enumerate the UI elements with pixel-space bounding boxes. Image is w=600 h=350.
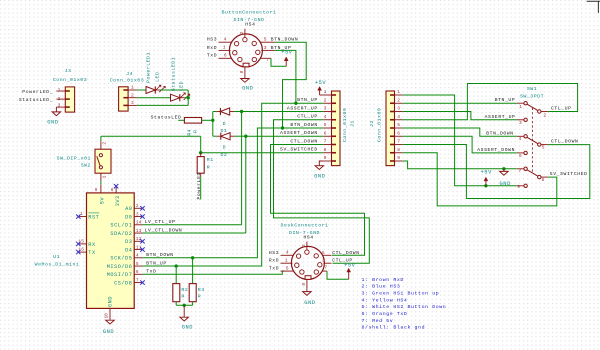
svg-text:Conn_01x03: Conn_01x03: [110, 77, 144, 83]
pin 8 (DeskConnector1): [301, 280, 307, 289]
pin 1 number (SW2): [102, 175, 108, 178]
ground symbol (R2/R3): [180, 317, 189, 321]
wire BTN_DOWN bus: [143, 128, 324, 258]
pin 13 SDA/D2 (U1): [110, 228, 142, 237]
svg-text:A0: A0: [125, 206, 132, 212]
pin 8 (ButtonConnector1): [239, 67, 245, 74]
svg-text:3: 3: [322, 258, 325, 264]
pin numbers J2: [397, 89, 400, 161]
junction BTN_DOWN / ButtonConnector1: [281, 126, 284, 129]
net label ASSERT_DOWN (J1): [280, 130, 318, 136]
net label CTL_DOWN (J1): [290, 138, 317, 144]
net label RxD (top): [207, 45, 217, 51]
svg-text:R: R: [181, 294, 184, 300]
wire pin7 to +5V (bottom): [327, 271, 349, 279]
net label ASSERT_UP (J1): [287, 105, 318, 111]
svg-text:BTN_UP: BTN_UP: [146, 260, 167, 266]
wire ASSERT_DOWN row: [246, 135, 323, 137]
svg-text:BTN_DOWN: BTN_DOWN: [486, 130, 513, 136]
svg-text:14: 14: [136, 220, 142, 226]
resistor R2: [173, 284, 180, 306]
svg-text:SCL/D1: SCL/D1: [110, 223, 132, 229]
junction BTN_UP / ButtonConnector1: [294, 102, 297, 105]
svg-text:4: 4: [224, 37, 227, 43]
svg-text:HS3: HS3: [269, 250, 279, 256]
label SW1: [527, 86, 537, 92]
svg-text:GND: GND: [108, 296, 114, 307]
pin 1 stub (ButtonConnector1): [219, 45, 231, 51]
svg-text:3: 3: [136, 211, 139, 217]
net label CTL_UP (SW1): [551, 106, 572, 112]
svg-text:RX: RX: [88, 242, 96, 248]
svg-text:6: 6: [324, 130, 327, 136]
svg-text:GND: GND: [242, 86, 253, 92]
svg-text:2: 2: [397, 97, 400, 103]
power +5V (J1 pin1): [318, 87, 324, 95]
svg-text:BTN_UP: BTN_UP: [297, 97, 318, 103]
svg-text:5V: 5V: [99, 197, 105, 205]
svg-text:SW_DIP_x01: SW_DIP_x01: [57, 155, 91, 161]
svg-text:+5V: +5V: [281, 50, 293, 56]
svg-text:4: 4: [397, 114, 400, 120]
svg-text:2: 2: [136, 203, 139, 209]
net label HS3: [207, 37, 217, 43]
svg-text:Conn_01x03: Conn_01x03: [53, 77, 87, 83]
net label HS4 (top): [245, 22, 255, 28]
svg-text:8: 8: [397, 147, 400, 153]
pin 14 SCL/D1 (U1): [110, 220, 142, 229]
svg-text:R2: R2: [181, 287, 188, 293]
label StatusLED1: [170, 57, 176, 91]
wire CTL_DOWN to SW1: [403, 145, 590, 199]
svg-text:CS/D8: CS/D8: [114, 280, 132, 286]
svg-text:StatusLED_: StatusLED_: [19, 97, 53, 103]
resistor R3: [189, 284, 196, 306]
svg-text:9: 9: [324, 155, 327, 161]
power +5V (SW1): [484, 177, 488, 186]
svg-text:TxD: TxD: [207, 53, 217, 59]
svg-text:Conn_01x09: Conn_01x09: [377, 108, 383, 142]
switch SW2 SW_DIP_x01: [95, 141, 111, 181]
svg-text:6: 6: [286, 266, 289, 272]
pin 3 stub (ButtonConnector1): [261, 45, 274, 51]
pin 1 stub (DeskConnector1): [281, 258, 293, 264]
pin 11 D4 (U1): [125, 244, 142, 253]
value DIN-7-GND (DeskConnector1): [289, 230, 320, 236]
ground symbol (U1): [106, 320, 115, 324]
value LED (StatusLED1): [179, 81, 185, 91]
svg-text:StatusLED1: StatusLED1: [170, 57, 176, 91]
wire CTL_DOWN bus: [271, 145, 365, 256]
label +5V (J1): [315, 80, 327, 86]
net label CTL_DOWN (SW1): [551, 139, 578, 145]
label SW_DIP_x01: [57, 155, 91, 161]
label Conn_01x09 (J1): [342, 108, 348, 142]
wire ASSERT_DOWN to LV_CTL_DOWN: [143, 136, 246, 233]
net label BTN_UP (J1): [297, 97, 318, 103]
value D (D1): [223, 121, 226, 127]
svg-text:SW_3PDT: SW_3PDT: [520, 94, 544, 100]
no-connect X D4: [140, 247, 144, 251]
net label TxD (U1): [146, 269, 156, 275]
svg-text:U1: U1: [53, 254, 60, 260]
svg-text:ASSERT_DOWN: ASSERT_DOWN: [280, 130, 318, 136]
net label HS3 (bottom): [269, 250, 279, 256]
sheet frame corner: [587, 1, 600, 13]
pin 3 D0 (U1): [125, 211, 142, 220]
svg-text:+5V: +5V: [315, 80, 327, 86]
junction GND (SW1): [502, 167, 505, 170]
pin 9 5V (U1): [95, 185, 106, 204]
svg-text:8: 8: [301, 283, 307, 286]
wire R4 to diodes: [202, 119, 213, 121]
junction LED cathodes: [187, 96, 190, 99]
value R (R3): [198, 294, 201, 300]
label J1: [350, 120, 356, 127]
diode D2: [213, 133, 246, 140]
pin 6 stub (DeskConnector1): [281, 266, 294, 272]
power +5V (ButtonConnector1): [284, 57, 288, 66]
wire ASSERT_DOWN to SW1: [403, 136, 517, 153]
pin 2 (DeskConnector1): [301, 242, 307, 250]
pin 16 TX (U1): [78, 247, 96, 257]
pin 5 stub (ButtonConnector1): [260, 37, 274, 43]
connector DeskConnector1 DIN-7-GND body: [291, 246, 324, 279]
svg-text:1: 1: [131, 85, 134, 91]
svg-text:10: 10: [103, 313, 109, 319]
svg-text:5: 5: [264, 37, 267, 43]
svg-text:3: 3: [397, 106, 400, 112]
svg-text:PowerLED_: PowerLED_: [22, 89, 53, 95]
wire ASSERT_UP to SW1: [403, 112, 517, 120]
svg-text:WeMos_D1_mini: WeMos_D1_mini: [35, 262, 80, 268]
label R1: [207, 157, 214, 163]
svg-text:1: 1: [324, 89, 327, 95]
svg-text:5: 5: [324, 122, 327, 128]
value R (R1): [207, 165, 210, 171]
connector J3 Conn_01x03: [56, 87, 74, 112]
net label PowerLED (J3 pin 1): [22, 87, 60, 95]
svg-text:6: 6: [519, 153, 522, 159]
pin 2 A0 (U1): [125, 203, 142, 212]
svg-text:5: 5: [542, 145, 545, 151]
net label 5V_SWITCHED: [280, 147, 318, 153]
svg-text:4: 4: [324, 114, 327, 120]
connector J2 Conn_01x09: [386, 91, 403, 166]
resistor R1: [197, 153, 204, 178]
svg-text:5: 5: [397, 122, 400, 128]
diode D1: [213, 108, 242, 115]
svg-text:5V_SWITCHED: 5V_SWITCHED: [550, 171, 588, 177]
value LED (PowerLED1): [155, 72, 161, 82]
label GND (J1): [314, 173, 325, 179]
svg-text:7: 7: [266, 57, 269, 63]
svg-text:J4: J4: [126, 71, 133, 77]
svg-text:J1: J1: [350, 120, 356, 127]
pin 4 stub (ButtonConnector1): [219, 37, 232, 43]
no-connect X TX: [76, 250, 80, 254]
svg-text:2: 2: [58, 96, 61, 102]
svg-text:LV_CTL_UP: LV_CTL_UP: [145, 219, 176, 225]
label D2: [220, 152, 227, 158]
svg-text:D: D: [223, 145, 226, 151]
pin 3 stub (DeskConnector1): [322, 258, 332, 264]
ground lead (DeskConnector1): [306, 288, 308, 291]
svg-text:GND: GND: [304, 300, 315, 306]
svg-text:SW1: SW1: [527, 86, 537, 92]
label R4: [187, 129, 193, 136]
LED PowerLED1: [137, 85, 165, 93]
pin numbers SW1: [517, 104, 546, 190]
ground symbol (DeskConnector1): [303, 292, 312, 296]
net label StatusLED (J3 pin 2): [19, 96, 61, 103]
wire J1 pin9 to ground: [319, 161, 323, 166]
net label BTN_DOWN (J1): [290, 122, 317, 128]
svg-text:1: 1: [58, 87, 61, 93]
value R (R2): [181, 294, 184, 300]
pin 1 RST (U1): [78, 211, 99, 221]
label +5V (SW1): [481, 170, 493, 176]
pin 5 stub (DeskConnector1): [322, 250, 332, 256]
svg-text:7: Red 5v: 7: Red 5v: [362, 318, 394, 324]
svg-text:1: 1: [80, 211, 83, 217]
svg-text:DeskConnector1: DeskConnector1: [280, 222, 328, 228]
svg-text:2: 2: [131, 92, 134, 98]
junction D1 anode / ASSERT_UP: [240, 110, 243, 113]
svg-text:4: Yellow HS4: 4: Yellow HS4: [362, 297, 408, 303]
no-connect X RST: [76, 214, 80, 218]
svg-text:StatusLED: StatusLED: [151, 114, 182, 120]
pin numbers J1: [324, 89, 327, 161]
pin 7 stub (DeskConnector1): [322, 264, 327, 271]
wire +5V rail to SW1: [403, 95, 517, 186]
svg-text:6: 6: [397, 130, 400, 136]
net label 5V_SWITCHED (SW1): [550, 171, 588, 177]
net label BTN_UP (top): [271, 45, 292, 51]
wire R1 to PowerLED: [200, 177, 202, 199]
net label StatusLED: [151, 114, 182, 120]
no-connect X RX: [76, 242, 80, 246]
pin 5 MISO/D6 (U1): [107, 261, 143, 270]
svg-text:GND: GND: [103, 329, 114, 335]
label J2: [369, 120, 375, 127]
svg-text:8: 8: [324, 147, 327, 153]
wire SW2 to 5V_SWITCHED: [101, 136, 201, 153]
svg-text:4: 4: [519, 136, 522, 142]
wire diode cathode bus: [212, 112, 214, 137]
value D (D2): [223, 145, 226, 151]
svg-text:TxD: TxD: [269, 266, 279, 272]
svg-text:5: 5: [136, 261, 139, 267]
ground symbol (ButtonConnector1): [241, 79, 250, 83]
svg-text:R1: R1: [207, 157, 214, 163]
wire to ground (R2/R3): [183, 305, 185, 317]
wire BTN_DOWN from ButtonConnector1: [275, 42, 307, 128]
connector J1 Conn_01x09: [323, 91, 340, 166]
wire CTL_UP to SW1: [403, 84, 578, 120]
label +5V (ButtonConnector1): [281, 50, 293, 56]
LED StatusLED1: [137, 93, 190, 101]
svg-text:5V_SWITCHED: 5V_SWITCHED: [280, 147, 318, 153]
svg-text:1: Brown RxD: 1: Brown RxD: [362, 277, 404, 283]
net label TxD (top): [207, 53, 217, 59]
svg-text:4: 4: [286, 250, 289, 256]
net label BTN_DOWN (top): [271, 37, 298, 43]
svg-text:7: 7: [397, 139, 400, 145]
svg-text:3: 3: [58, 102, 61, 108]
no-connect X 3V3: [114, 184, 118, 188]
ground symbol (J1): [315, 166, 324, 170]
power +5V (DeskConnector1): [347, 268, 351, 279]
net label BTN_DOWN (U1): [146, 252, 173, 258]
wire BTN_UP to SW1: [403, 102, 517, 104]
svg-text:Conn_01x09: Conn_01x09: [342, 108, 348, 142]
label +5V (DeskConnector1): [344, 262, 356, 268]
junction D2 anode / ASSERT_DOWN: [244, 135, 247, 138]
label SW2: [81, 163, 91, 169]
svg-text:13: 13: [136, 228, 142, 234]
pin 4 stub (DeskConnector1): [281, 250, 294, 256]
svg-text:CTL_UP: CTL_UP: [297, 114, 318, 120]
svg-text:9: 9: [95, 187, 98, 193]
wire 5V_SWITCHED to SW1: [403, 153, 557, 206]
svg-text:BTN_UP: BTN_UP: [495, 97, 516, 103]
svg-text:9: 9: [517, 184, 520, 190]
svg-text:7: 7: [324, 264, 327, 270]
note wiring legend: [362, 277, 447, 331]
label D1: [220, 128, 227, 134]
svg-text:D1: D1: [220, 128, 227, 134]
junction +5V (SW1): [484, 184, 487, 187]
svg-text:1: 1: [397, 89, 400, 95]
connector ButtonConnector1 DIN-7-GND body: [229, 34, 262, 67]
svg-text:1: 1: [223, 45, 226, 51]
svg-text:3: 3: [324, 106, 327, 112]
wire SW2 to U1 5V: [100, 181, 102, 185]
svg-text:1: 1: [519, 104, 522, 110]
svg-text:3: 3: [264, 45, 267, 51]
wire TxD bus: [143, 271, 285, 274]
wire ASSERT_UP to LV_CTL_UP: [143, 112, 242, 225]
svg-text:R: R: [192, 129, 198, 132]
label Conn_01x09 (J2): [377, 108, 383, 142]
label J4: [126, 71, 133, 77]
svg-text:MISO/D6: MISO/D6: [107, 264, 133, 270]
svg-text:R3: R3: [198, 287, 205, 293]
net label ASSERT_UP (SW1): [485, 114, 516, 120]
svg-text:ASSERT_UP: ASSERT_UP: [485, 114, 516, 120]
wire J3 pin3 to ground: [55, 107, 57, 112]
value WeMos_D1_mini: [35, 262, 80, 268]
label GND (DeskConnector1): [304, 300, 315, 306]
no-connect X A0: [140, 206, 144, 210]
svg-text:LED: LED: [155, 72, 161, 82]
svg-text:2: 2: [102, 142, 108, 145]
value DIN-7-GND (ButtonConnector1): [234, 17, 265, 23]
svg-text:ASSERT_UP: ASSERT_UP: [287, 105, 318, 111]
svg-text:8/shell: Black gnd: 8/shell: Black gnd: [362, 325, 426, 331]
svg-text:ButtonConnector1: ButtonConnector1: [222, 9, 277, 15]
svg-text:HS3: HS3: [207, 37, 217, 43]
pin 6 MOSI/D7 (U1): [107, 269, 143, 278]
svg-text:+5V: +5V: [481, 170, 493, 176]
svg-text:+5V: +5V: [344, 262, 356, 268]
net label CTL_DOWN (bottom): [332, 250, 359, 256]
net label TxD (bottom): [269, 266, 279, 272]
wire BTN_DOWN to SW1: [403, 128, 517, 136]
wire BTN_UP bus: [143, 103, 324, 266]
svg-text:HS4: HS4: [245, 22, 255, 28]
svg-text:CTL_DOWN: CTL_DOWN: [551, 139, 578, 145]
svg-text:GND: GND: [182, 325, 193, 331]
svg-text:7: 7: [324, 139, 327, 145]
net label ASSERT_DOWN (SW1): [477, 147, 515, 153]
pin 15 RX (U1): [78, 238, 96, 248]
svg-text:BTN_DOWN: BTN_DOWN: [290, 122, 317, 128]
svg-text:2: 2: [324, 97, 327, 103]
svg-text:MOSI/D7: MOSI/D7: [107, 272, 133, 278]
net label BTN_UP (U1): [146, 260, 167, 266]
label GND (SW1): [500, 181, 511, 187]
wire StatusLED to R4: [178, 119, 184, 121]
svg-text:GND: GND: [500, 181, 511, 187]
svg-text:5: White HS2 Button Down: 5: White HS2 Button Down: [362, 304, 447, 310]
wire J4 pin3 return: [137, 98, 188, 106]
svg-text:8: 8: [111, 187, 114, 193]
value Conn_01x03 (J3): [53, 77, 87, 83]
pin 8 3V3 (U1): [111, 186, 121, 206]
svg-text:RxD: RxD: [207, 45, 217, 51]
svg-text:D: D: [223, 121, 226, 127]
wire pin7 to +5V (top): [271, 58, 286, 66]
pin 4 SCK/D5 (U1): [110, 253, 142, 262]
wire LED2 cathode: [184, 97, 188, 99]
svg-text:BTN_DOWN: BTN_DOWN: [271, 37, 298, 43]
svg-text:3: 3: [131, 100, 134, 106]
svg-text:6: 6: [136, 269, 139, 275]
svg-text:D3: D3: [125, 239, 132, 245]
svg-text:9: 9: [397, 155, 400, 161]
wire BTN_DOWN to R3: [192, 258, 194, 284]
svg-text:J3: J3: [65, 68, 72, 74]
ground symbol (SW1): [500, 171, 509, 175]
net label LV_CTL_UP: [145, 219, 176, 225]
net label HS4 (bottom): [303, 234, 313, 240]
svg-text:D4: D4: [125, 247, 132, 253]
svg-text:RST: RST: [88, 215, 99, 221]
svg-text:TX: TX: [88, 250, 96, 256]
wire 5V_SWITCHED: [201, 152, 324, 154]
value R (R4): [192, 129, 198, 132]
svg-text:6: Orange TxD: 6: Orange TxD: [362, 311, 408, 317]
svg-text:2: 2: [239, 31, 245, 34]
wire CTL_UP bus: [274, 120, 370, 263]
svg-text:GND: GND: [314, 173, 325, 179]
pin 12 D3 (U1): [125, 236, 142, 245]
svg-text:SCK/D5: SCK/D5: [110, 256, 132, 262]
svg-text:1: 1: [285, 258, 288, 264]
junction R4/diode cathodes: [211, 119, 214, 122]
net label BTN_DOWN (SW1): [486, 130, 513, 136]
switch SW1 SW_3PDT: [517, 102, 548, 188]
wire R2/R3 ground join: [176, 304, 192, 306]
label GND (ButtonConnector1): [242, 86, 253, 92]
wire ASSERT_UP row: [242, 111, 324, 113]
no-connect X D3: [140, 239, 144, 243]
label DeskConnector1: [280, 222, 328, 228]
wire GND to SW1: [403, 161, 517, 169]
ground symbol (J3): [52, 112, 61, 116]
